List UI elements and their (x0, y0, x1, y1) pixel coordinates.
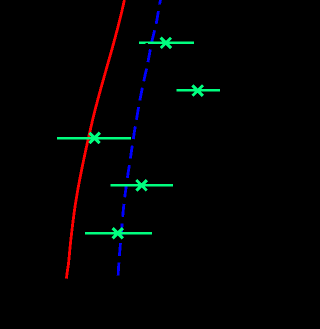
data point 2 X marker (193, 85, 203, 95)
data point 2 error bar (176, 89, 220, 92)
data point 1 error bar (139, 41, 194, 44)
data point 1 X marker (161, 38, 171, 48)
black notch over bar 1 (145, 43, 148, 47)
red solid model curve (66, 0, 124, 279)
data point 3 error bar (57, 137, 131, 140)
data point 5 error bar (85, 232, 152, 235)
blue dashed model curve (118, 0, 160, 278)
data point 3 X marker (89, 133, 99, 143)
data point 5 X marker (113, 228, 123, 238)
data point 4 X marker (136, 180, 146, 190)
data point 4 error bar (110, 184, 173, 187)
